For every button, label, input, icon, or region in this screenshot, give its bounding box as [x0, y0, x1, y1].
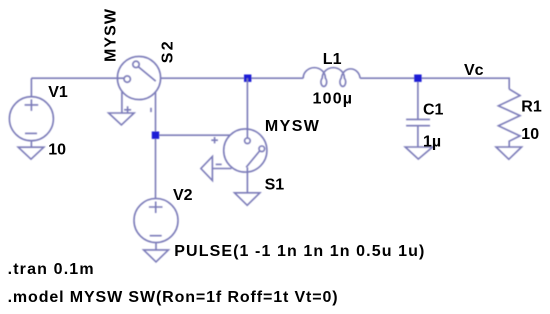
svg-text:1µ: 1µ [423, 134, 441, 151]
svg-text:R1: R1 [521, 99, 542, 116]
resistor R1 [498, 89, 520, 147]
svg-text:C1: C1 [423, 101, 444, 118]
voltage source V2 [134, 199, 178, 250]
wire L1 to corner and down to R1 [360, 78, 509, 89]
wire junction down to S1 [246, 78, 248, 138]
wire junction down to V2 [155, 139, 157, 199]
ground (S1 minus pin, rotated left) [201, 157, 213, 181]
svg-text:MYSW: MYSW [103, 8, 120, 62]
wire S1 bottom to ground [246, 167, 248, 193]
svg-text:.model MYSW SW(Ron=1f Roff=1t: .model MYSW SW(Ron=1f Roff=1t Vt=0) [8, 289, 338, 306]
voltage source V1 [9, 78, 53, 147]
capacitor C1 [406, 82, 430, 147]
switch S1 [159, 129, 267, 172]
svg-text:MYSW: MYSW [265, 118, 320, 135]
svg-text:PULSE(1 -1 1n 1n 1n 0.5u 1u): PULSE(1 -1 1n 1n 1n 0.5u 1u) [174, 243, 424, 260]
switch S2 [117, 56, 160, 131]
ground (R1) [496, 147, 522, 159]
svg-text:S1: S1 [265, 176, 285, 193]
ground (V1) [18, 147, 44, 159]
ground (S1) [235, 193, 260, 206]
svg-text:L1: L1 [323, 51, 342, 68]
svg-text:Vc: Vc [464, 62, 484, 79]
ground (V2) [144, 250, 169, 262]
svg-text:.tran 0.1m: .tran 0.1m [8, 261, 94, 278]
wire S2 to L1 [161, 77, 304, 79]
ground (C1) [405, 147, 432, 159]
svg-text:10: 10 [521, 126, 539, 143]
inductor L1 [303, 68, 360, 87]
junction node (C1 tap) [414, 75, 421, 82]
junction node (rail to S1) [244, 75, 251, 82]
svg-text:S2: S2 [160, 41, 177, 63]
svg-text:10: 10 [48, 142, 66, 159]
svg-text:V1: V1 [48, 84, 68, 101]
ground (S2 plus pin) [109, 113, 135, 125]
junction node (below S2) [152, 132, 159, 139]
wire V1 to S2 [31, 77, 124, 79]
svg-text:V2: V2 [173, 187, 193, 204]
svg-text:100µ: 100µ [313, 91, 353, 108]
